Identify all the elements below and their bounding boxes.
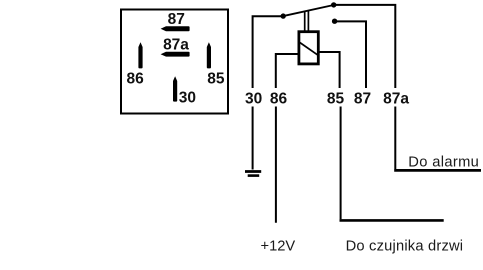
ground bar 1 — [245, 170, 261, 173]
wire pin30 to armature pivot — [253, 16, 283, 88]
relay armature arm — [283, 5, 334, 16]
wire pin 30 to ground — [252, 107, 254, 170]
wire pin 86 to +12V — [275, 107, 277, 223]
svg-text:87a: 87a — [163, 37, 189, 54]
pin 85 blade terminal — [207, 42, 211, 68]
pin 87a blade terminal — [161, 52, 190, 57]
wire alarm horizontal — [394, 169, 481, 172]
svg-text:+12V: +12V — [261, 238, 296, 254]
svg-text:30: 30 — [245, 91, 262, 108]
wire coil to pin 86 — [276, 54, 299, 88]
relay actuator link line 2 — [307, 10, 309, 31]
svg-text:Do alarmu: Do alarmu — [408, 154, 479, 170]
svg-text:30: 30 — [179, 89, 196, 106]
relay actuator link line 1 — [304, 11, 306, 31]
svg-text:87: 87 — [354, 91, 371, 108]
wire pin 85 to door sensor — [340, 107, 342, 220]
wire door sensor horizontal — [340, 219, 444, 222]
svg-text:85: 85 — [327, 91, 345, 108]
wire contact 87 to pin 87 — [335, 21, 366, 88]
svg-text:86: 86 — [126, 70, 144, 87]
pin 87 blade terminal — [161, 26, 190, 31]
pin 86 blade terminal — [138, 42, 142, 68]
node contact 87a — [331, 2, 336, 7]
svg-text:Do czujnika drzwi: Do czujnika drzwi — [346, 238, 464, 254]
wire coil to pin 85 — [319, 52, 340, 88]
wire contact 87a to pin 87a — [334, 5, 396, 88]
svg-text:87a: 87a — [383, 91, 409, 108]
node armature pivot (30) — [281, 13, 286, 18]
relay K1 socket body (bottom view) — [121, 10, 228, 114]
ground bar 2 — [248, 174, 260, 177]
svg-text:87: 87 — [168, 11, 185, 28]
svg-text:86: 86 — [270, 91, 288, 108]
relay coil K1 — [299, 32, 318, 64]
pin 30 blade terminal — [173, 76, 177, 101]
svg-text:85: 85 — [207, 70, 225, 87]
wire pin 87a to alarm — [394, 107, 396, 170]
node contact 87 — [332, 19, 337, 24]
relay coil diagonal — [300, 43, 318, 56]
